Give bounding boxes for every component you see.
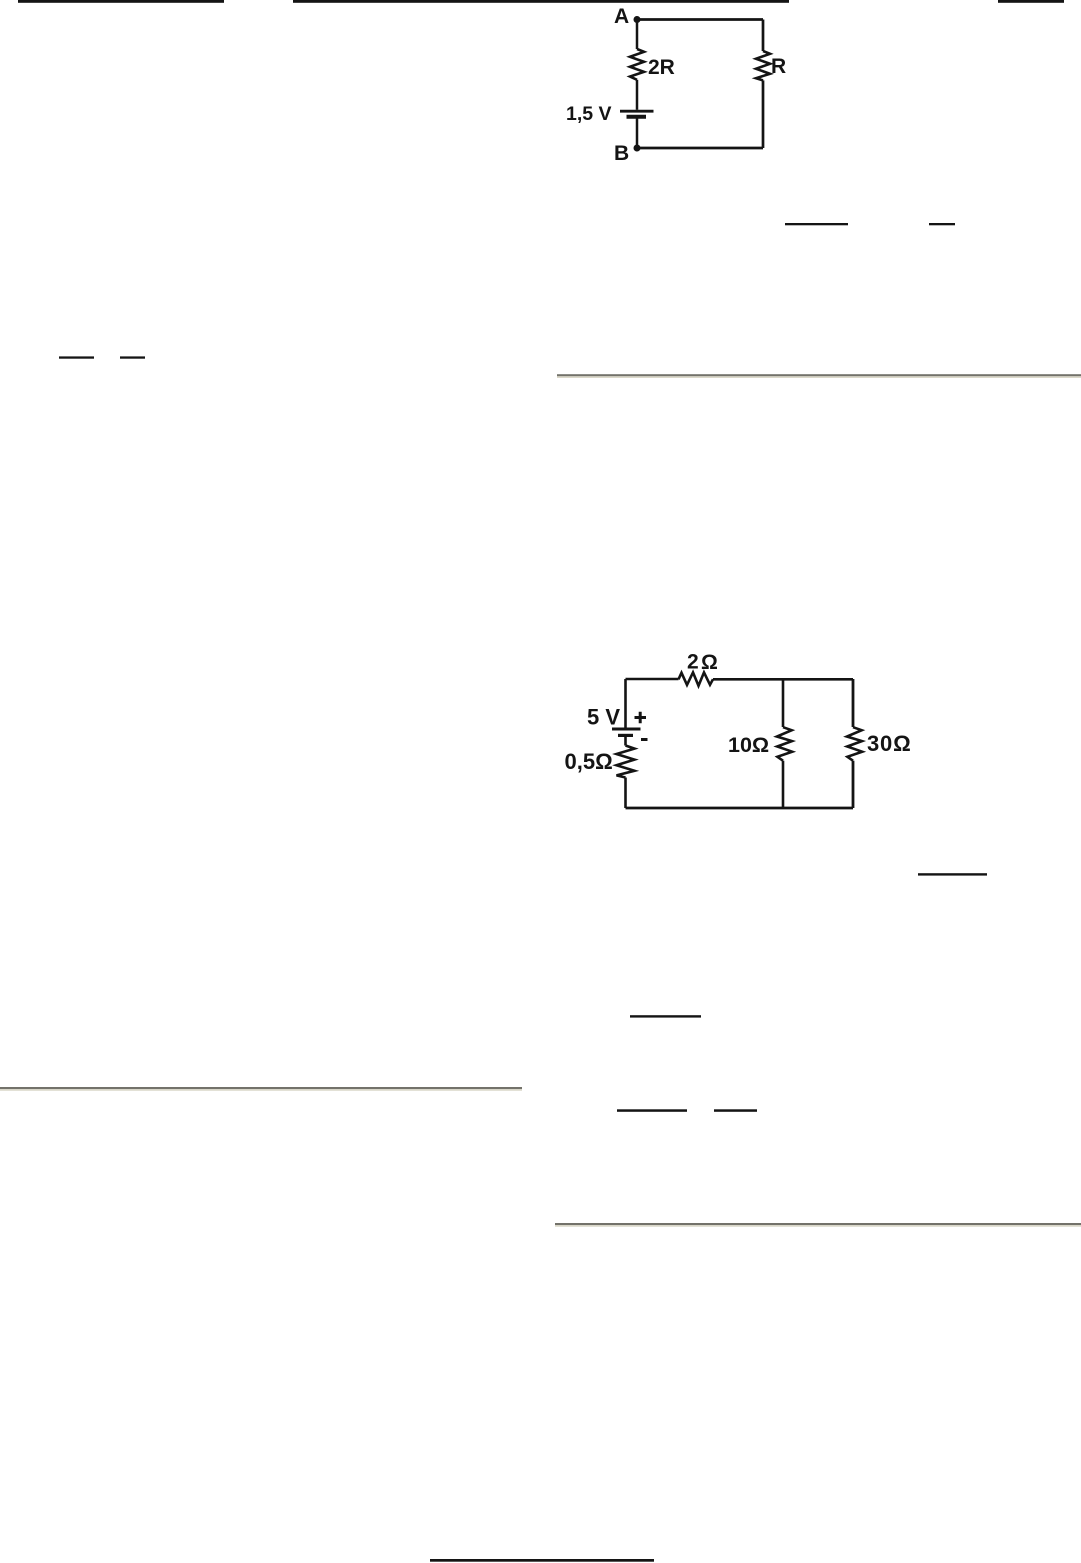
battery 5 V positive plate (long) bbox=[612, 728, 641, 731]
resistor 2R zigzag bbox=[630, 49, 644, 80]
battery 5 V negative plate (short) bbox=[618, 734, 633, 737]
fraction bar below circuit 2 (right) bbox=[918, 873, 987, 875]
svg-text:0,5Ω: 0,5Ω bbox=[565, 749, 613, 774]
svg-text:1,5 V: 1,5 V bbox=[566, 103, 612, 125]
wire: resistor 2 ohm to top-right corner of circuit 2 bbox=[713, 678, 853, 681]
section divider rule (right column, below circuit 1) bbox=[557, 374, 1081, 376]
wire: top-left corner of circuit 2 to resistor 2 ohm bbox=[626, 678, 679, 681]
section divider rule (left column) bbox=[0, 1087, 522, 1089]
node A junction dot bbox=[634, 16, 641, 23]
battery plus sign bbox=[635, 712, 647, 723]
wire: right branch top (corner to resistor 30 ohm) bbox=[852, 679, 855, 727]
resistor R zigzag bbox=[756, 51, 770, 80]
wire: bottom of circuit 2 bbox=[626, 807, 854, 810]
fraction bar (answer) right of circuit 1 bbox=[785, 223, 848, 225]
svg-text:R: R bbox=[771, 55, 786, 78]
wire: top of circuit 1, node A to top-right corner bbox=[637, 18, 763, 21]
fraction bar mid right column bbox=[630, 1015, 701, 1017]
svg-text:30Ω: 30Ω bbox=[867, 731, 912, 756]
wire: right branch top, corner down to resistor R bbox=[762, 20, 765, 52]
svg-text:10Ω: 10Ω bbox=[728, 733, 769, 757]
wire: middle branch top (junction to resistor 10 ohm) bbox=[782, 679, 785, 727]
svg-text:2R: 2R bbox=[648, 56, 675, 79]
svg-text:5 V: 5 V bbox=[587, 705, 620, 730]
svg-text:B: B bbox=[614, 142, 629, 165]
node B junction dot bbox=[634, 145, 641, 152]
resistor 30 ohm zigzag bbox=[847, 727, 862, 761]
wire: top-left corner of circuit 2 down to battery bbox=[624, 679, 627, 728]
wire: right branch bottom (resistor 30 ohm to bottom wire) bbox=[852, 761, 855, 808]
resistor 0,5 ohm zigzag bbox=[617, 746, 635, 778]
wire: battery to node B bbox=[636, 118, 639, 148]
resistor 10 ohm zigzag bbox=[777, 727, 792, 761]
fraction bar (answer) far right bbox=[929, 223, 955, 225]
wire: bottom of circuit 1, node B to bottom-right corner bbox=[637, 147, 763, 150]
resistor 2 ohm zigzag (horizontal) bbox=[679, 672, 714, 685]
wire: resistor 0,5 ohm to bottom-left corner bbox=[624, 778, 627, 809]
footer rule bbox=[430, 1559, 654, 1562]
wire: battery to resistor 0,5 ohm bbox=[624, 735, 627, 745]
battery 1,5 V positive plate (long) bbox=[620, 110, 654, 113]
top rule left segment bbox=[18, 0, 224, 3]
fraction bar left column 2 bbox=[120, 356, 145, 358]
battery minus sign bbox=[641, 738, 648, 741]
top rule middle segment bbox=[293, 0, 789, 3]
wire: middle branch bottom (resistor 10 ohm to bottom wire) bbox=[782, 761, 785, 808]
wire: right branch bottom, resistor R to corner bbox=[762, 80, 765, 148]
battery 1,5 V negative plate (short) bbox=[627, 115, 647, 119]
fraction bar pair lower right 2 bbox=[714, 1109, 757, 1112]
wire: resistor 2R to battery bbox=[636, 80, 639, 110]
wire: left branch from node A down to resistor 2R bbox=[636, 20, 639, 50]
fraction bar pair lower right 1 bbox=[617, 1109, 687, 1112]
top rule right segment bbox=[998, 0, 1064, 3]
svg-text:A: A bbox=[614, 5, 629, 28]
section divider rule (right column, lower) bbox=[555, 1223, 1081, 1225]
fraction bar left column 1 bbox=[59, 356, 94, 358]
